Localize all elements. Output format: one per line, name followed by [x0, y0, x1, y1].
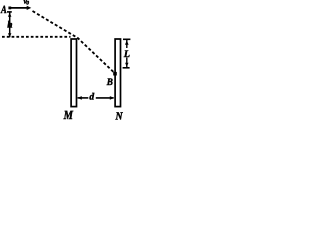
svg-text:B: B: [106, 77, 113, 88]
svg-text:0: 0: [26, 1, 29, 7]
svg-text:h: h: [7, 21, 12, 31]
svg-text:N: N: [115, 110, 124, 120]
svg-text:M: M: [63, 108, 74, 120]
svg-text:A: A: [0, 4, 7, 16]
svg-text:d: d: [89, 92, 94, 102]
svg-text:L: L: [123, 49, 130, 60]
